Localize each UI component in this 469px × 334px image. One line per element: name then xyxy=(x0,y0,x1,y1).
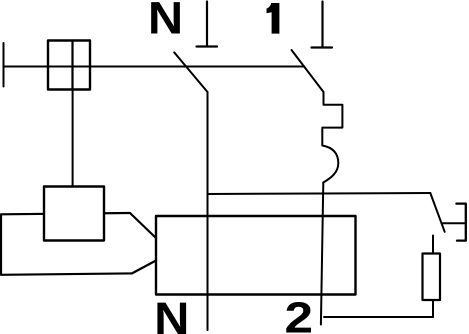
svg-text:N: N xyxy=(154,293,189,334)
wire N conductor vertical xyxy=(207,92,209,330)
label 1 (top) xyxy=(267,3,280,34)
current transformer T1 (large rectangle) xyxy=(156,216,356,295)
left terminal tick xyxy=(3,43,5,87)
wire from filter square down to relay xyxy=(72,90,74,188)
switch contact S1 (N pole) xyxy=(174,52,207,92)
switch contact S2 (line pole) xyxy=(292,50,324,92)
wire line conductor through transformer to terminal 2 xyxy=(321,183,323,325)
test button actuator link xyxy=(442,222,466,224)
wire test circuit horizontal xyxy=(208,193,431,194)
svg-text:2: 2 xyxy=(285,293,314,334)
test button SB contact diagonal xyxy=(430,193,444,232)
trip coil Y1 (step and hump) xyxy=(322,92,342,183)
terminal 1 (top) stub and bar xyxy=(312,2,333,48)
terminal N (top) stub and bar xyxy=(197,2,218,47)
wire test-circuit funnel outline (left) xyxy=(1,213,156,275)
wire main horizontal conductor xyxy=(4,66,305,68)
test button cap bracket xyxy=(456,204,465,241)
svg-text:N: N xyxy=(148,0,183,43)
filter square inner vertical divider xyxy=(71,41,73,90)
filter/test-button square X1 (crossed square) xyxy=(48,41,90,90)
wire fixed contact to resistor xyxy=(432,236,434,254)
wire resistor bottom xyxy=(432,300,434,317)
relay block K1 (small square) xyxy=(44,187,104,241)
wire bottom test return xyxy=(324,316,433,318)
resistor R1 (test resistor) xyxy=(423,254,441,301)
